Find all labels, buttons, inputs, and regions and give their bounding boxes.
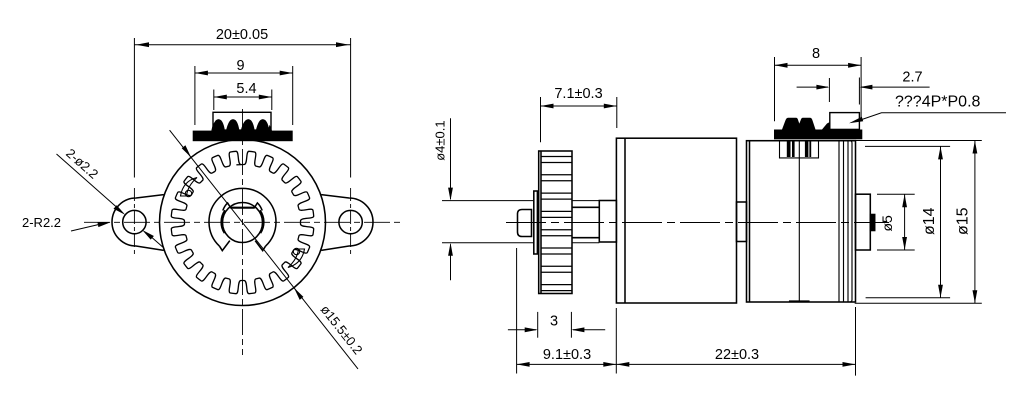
- right ear hole: [339, 210, 362, 233]
- dimension 8: [775, 57, 862, 121]
- bottom seam tab: [790, 301, 810, 302]
- svg-text:9: 9: [236, 58, 244, 74]
- svg-text:ø5: ø5: [879, 215, 895, 232]
- worm body outline rect: [213, 112, 271, 131]
- E-clip top chord with prongs: [223, 203, 262, 211]
- dimension ø5: [877, 194, 915, 250]
- shaft between gear and boss: [572, 207, 599, 237]
- ø4 bearing boss: [599, 201, 616, 243]
- svg-text:2.7: 2.7: [902, 69, 922, 85]
- dimension 20±0.05: [134, 38, 350, 178]
- E-clip grip arc thick: [222, 211, 226, 234]
- rear shaft stub: [870, 215, 874, 231]
- svg-text:3: 3: [550, 313, 558, 329]
- dimension 3 (arrows outside): [508, 312, 605, 338]
- spur gear 24 teeth: [171, 151, 313, 293]
- svg-text:ø15: ø15: [955, 207, 972, 235]
- dimension 2.7 (arrows outside): [797, 78, 930, 105]
- gearbox left inner line: [749, 141, 751, 302]
- gearbox outer circle ø15.5: [160, 140, 326, 306]
- E-clip right leg foot: [255, 241, 265, 251]
- svg-text:2-R2.2: 2-R2.2: [22, 215, 61, 230]
- worm axis line below slot: [798, 141, 800, 158]
- worm slot window under worm: [780, 141, 819, 158]
- left mounting ear: [112, 195, 164, 251]
- label ???4P*P0.8 with leader: [856, 113, 1006, 122]
- right mounting ear: [321, 195, 373, 251]
- worm end journal rect: [830, 113, 860, 130]
- gearbox body: [747, 141, 856, 302]
- dimension ø4±0.1 vertical: [450, 118, 452, 280]
- joint boss between motor and gearbox: [737, 202, 747, 242]
- svg-text:22±0.3: 22±0.3: [715, 347, 759, 363]
- dimension ø14: [865, 146, 950, 297]
- svg-text:ø4±0.1: ø4±0.1: [433, 120, 448, 160]
- output shaft tip cap: [518, 210, 532, 237]
- centerlines left view: [84, 109, 401, 355]
- left ear hole 2-ø2.2: [123, 210, 146, 233]
- mesh detail lower-right: [288, 249, 305, 268]
- worm on top of gearbox (side view, sectioned): [774, 113, 862, 140]
- leader ø15.5±0.2 diagonal: [170, 130, 358, 369]
- side view centerline: [506, 222, 889, 224]
- worm teeth black: [211, 119, 272, 131]
- dimension 9: [195, 66, 293, 125]
- gear teeth hatch lines: [541, 157, 572, 291]
- dimension 9.1±0.3: [517, 248, 617, 374]
- svg-text:7.1±0.3: 7.1±0.3: [554, 86, 602, 102]
- worm teeth in slot (thick): [787, 141, 811, 157]
- svg-text:5.4: 5.4: [236, 81, 256, 97]
- ø4 projection lines: [442, 201, 599, 243]
- leader 2-R2.2: [71, 224, 103, 232]
- horizontal centerline: [84, 221, 401, 223]
- worm on top (front view, sectioned): [193, 112, 293, 141]
- output gear body: [539, 151, 572, 294]
- leader 2-ø2.2: [57, 154, 164, 247]
- worm black bar: [774, 130, 862, 140]
- svg-text:20±0.05: 20±0.05: [216, 27, 268, 43]
- svg-text:8: 8: [812, 46, 820, 62]
- gearbox end rings: [839, 141, 848, 302]
- worm section bar black: [193, 131, 293, 142]
- left ear hole vertical centerline: [133, 188, 135, 254]
- svg-text:ø14: ø14: [921, 207, 938, 235]
- right ear hole vertical centerline: [350, 188, 352, 254]
- vertical centerline: [242, 109, 244, 355]
- mesh detail upper-left: [181, 178, 198, 197]
- svg-text:???4P*P0.8: ???4P*P0.8: [895, 94, 981, 111]
- dimension 22±0.3: [616, 307, 855, 376]
- washer: [534, 191, 538, 254]
- svg-text:9.1±0.3: 9.1±0.3: [543, 347, 591, 363]
- rear ø5 boss: [856, 194, 871, 250]
- motor front flange line: [624, 138, 626, 303]
- motor body: [616, 138, 736, 303]
- E-clip outer arc with bottom gap: [209, 188, 276, 246]
- E-clip left leg foot: [220, 241, 230, 251]
- dimension 7.1±0.3: [541, 97, 617, 142]
- dimension ø15: [855, 141, 982, 304]
- shaft hole circle: [223, 203, 263, 243]
- gearbox mid vertical line: [798, 158, 800, 302]
- dimension 5.4: [214, 90, 272, 111]
- gear left face inner line: [540, 151, 542, 294]
- worm teeth black: [782, 118, 816, 130]
